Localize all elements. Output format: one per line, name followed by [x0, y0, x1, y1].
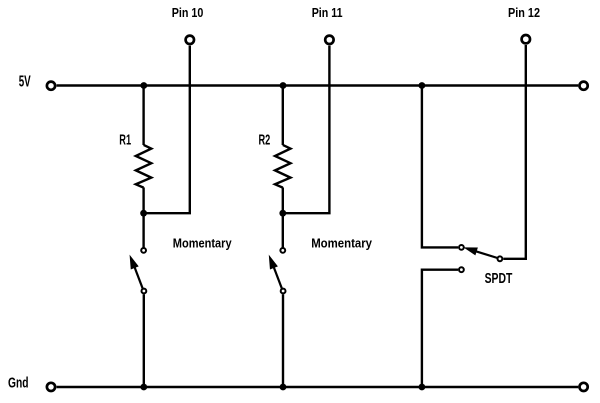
- svg-text:Pin 10: Pin 10: [172, 5, 204, 20]
- svg-text:SPDT: SPDT: [485, 271, 513, 287]
- wire SPDT lower throw from Gnd: [422, 270, 458, 387]
- wire branch2 top: [282, 86, 284, 146]
- junction branch2 Gnd: [280, 384, 287, 391]
- wire Gnd rail: [57, 386, 579, 388]
- junction branch2 / pin11: [279, 210, 286, 217]
- wire SPDT upper throw from 5V: [422, 86, 458, 248]
- switch S3 arm: [476, 251, 498, 258]
- switch S2 arm: [274, 267, 282, 288]
- wire branch2 mid: [282, 187, 284, 247]
- svg-text:R2: R2: [259, 132, 271, 149]
- wire 5V rail: [57, 84, 579, 86]
- junction SPDT Gnd: [419, 384, 426, 391]
- switch S2 top terminal: [280, 248, 285, 253]
- svg-text:R1: R1: [119, 132, 131, 149]
- switch S1 top terminal: [141, 248, 146, 253]
- svg-text:Pin 11: Pin 11: [312, 5, 343, 20]
- switch S1 arrowhead: [130, 256, 138, 269]
- resistor R2: [275, 145, 291, 188]
- wire branch1 top: [142, 86, 144, 146]
- svg-text:Momentary: Momentary: [173, 236, 232, 251]
- terminal circle 5V right: [580, 82, 588, 90]
- terminal circle 5V left: [47, 82, 55, 90]
- wire branch1 mid: [142, 187, 144, 247]
- terminal circle Pin 10: [186, 36, 194, 44]
- junction branch2 5V: [280, 82, 287, 89]
- switch S1 bottom terminal: [142, 289, 147, 294]
- switch S3 upper throw terminal: [459, 245, 464, 250]
- terminal circle Pin 11: [325, 36, 333, 44]
- terminal circle Pin 12: [522, 35, 530, 43]
- switch S2 arrowhead: [269, 256, 277, 269]
- junction branch1 / pin10: [140, 210, 147, 217]
- wire branch2 bottom: [282, 294, 284, 387]
- wire branch1 bottom: [143, 294, 145, 387]
- resistor R1: [136, 145, 152, 188]
- switch S3 arrowhead: [465, 248, 477, 255]
- switch S3 pole terminal: [498, 256, 503, 261]
- terminal circle Gnd left: [47, 383, 55, 391]
- wire Pin 10 vertical: [144, 46, 190, 214]
- junction SPDT 5V: [419, 82, 426, 89]
- junction branch1 Gnd: [140, 384, 147, 391]
- wire Pin 11 vertical: [283, 46, 330, 214]
- switch S2 bottom terminal: [281, 289, 286, 294]
- switch S1 arm: [135, 267, 143, 288]
- wire Pin 12 vertical: [503, 45, 526, 259]
- svg-text:Gnd: Gnd: [8, 376, 29, 392]
- junction branch1 5V: [140, 82, 147, 89]
- switch S3 lower throw terminal: [459, 267, 464, 272]
- svg-text:Pin 12: Pin 12: [508, 5, 540, 20]
- terminal circle Gnd right: [580, 383, 588, 391]
- svg-text:Momentary: Momentary: [311, 236, 372, 251]
- svg-text:5V: 5V: [19, 74, 31, 91]
